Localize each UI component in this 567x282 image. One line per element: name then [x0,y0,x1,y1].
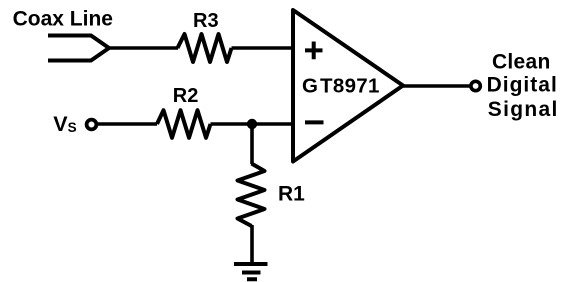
terminal output (open circle) [471,81,480,90]
wire R1 to ground [250,225,254,263]
resistor R2 [157,110,211,138]
svg-text:Clean: Clean [492,50,551,73]
wire junction down to R1 [250,124,254,164]
op-amp - input symbol [305,120,324,124]
svg-text:GT8971: GT8971 [302,74,380,97]
node junction dot [247,119,257,129]
wire coax point to R3 [107,46,178,50]
wire op-amp output [403,84,470,88]
op-amp U1 triangle [293,10,403,162]
terminal Vs (open circle) [87,120,97,130]
svg-text:V: V [53,112,68,136]
op-amp + input symbol [305,42,323,60]
svg-text:R3: R3 [193,10,219,32]
resistor R1 [238,164,265,227]
wire Vs to R2 [98,122,158,126]
wire R3 to op-amp + input [232,46,293,50]
svg-text:S: S [68,120,77,135]
svg-text:Signal: Signal [488,98,559,121]
ground [234,264,268,279]
svg-text:R1: R1 [278,183,305,206]
resistor R3 [178,34,232,62]
svg-text:Coax Line: Coax Line [13,7,113,30]
svg-text:Digital: Digital [487,73,558,96]
svg-text:R2: R2 [173,85,199,107]
wire R2 to op-amp - input [211,122,293,126]
coax line stub (open transmission-line symbol) [48,36,109,61]
